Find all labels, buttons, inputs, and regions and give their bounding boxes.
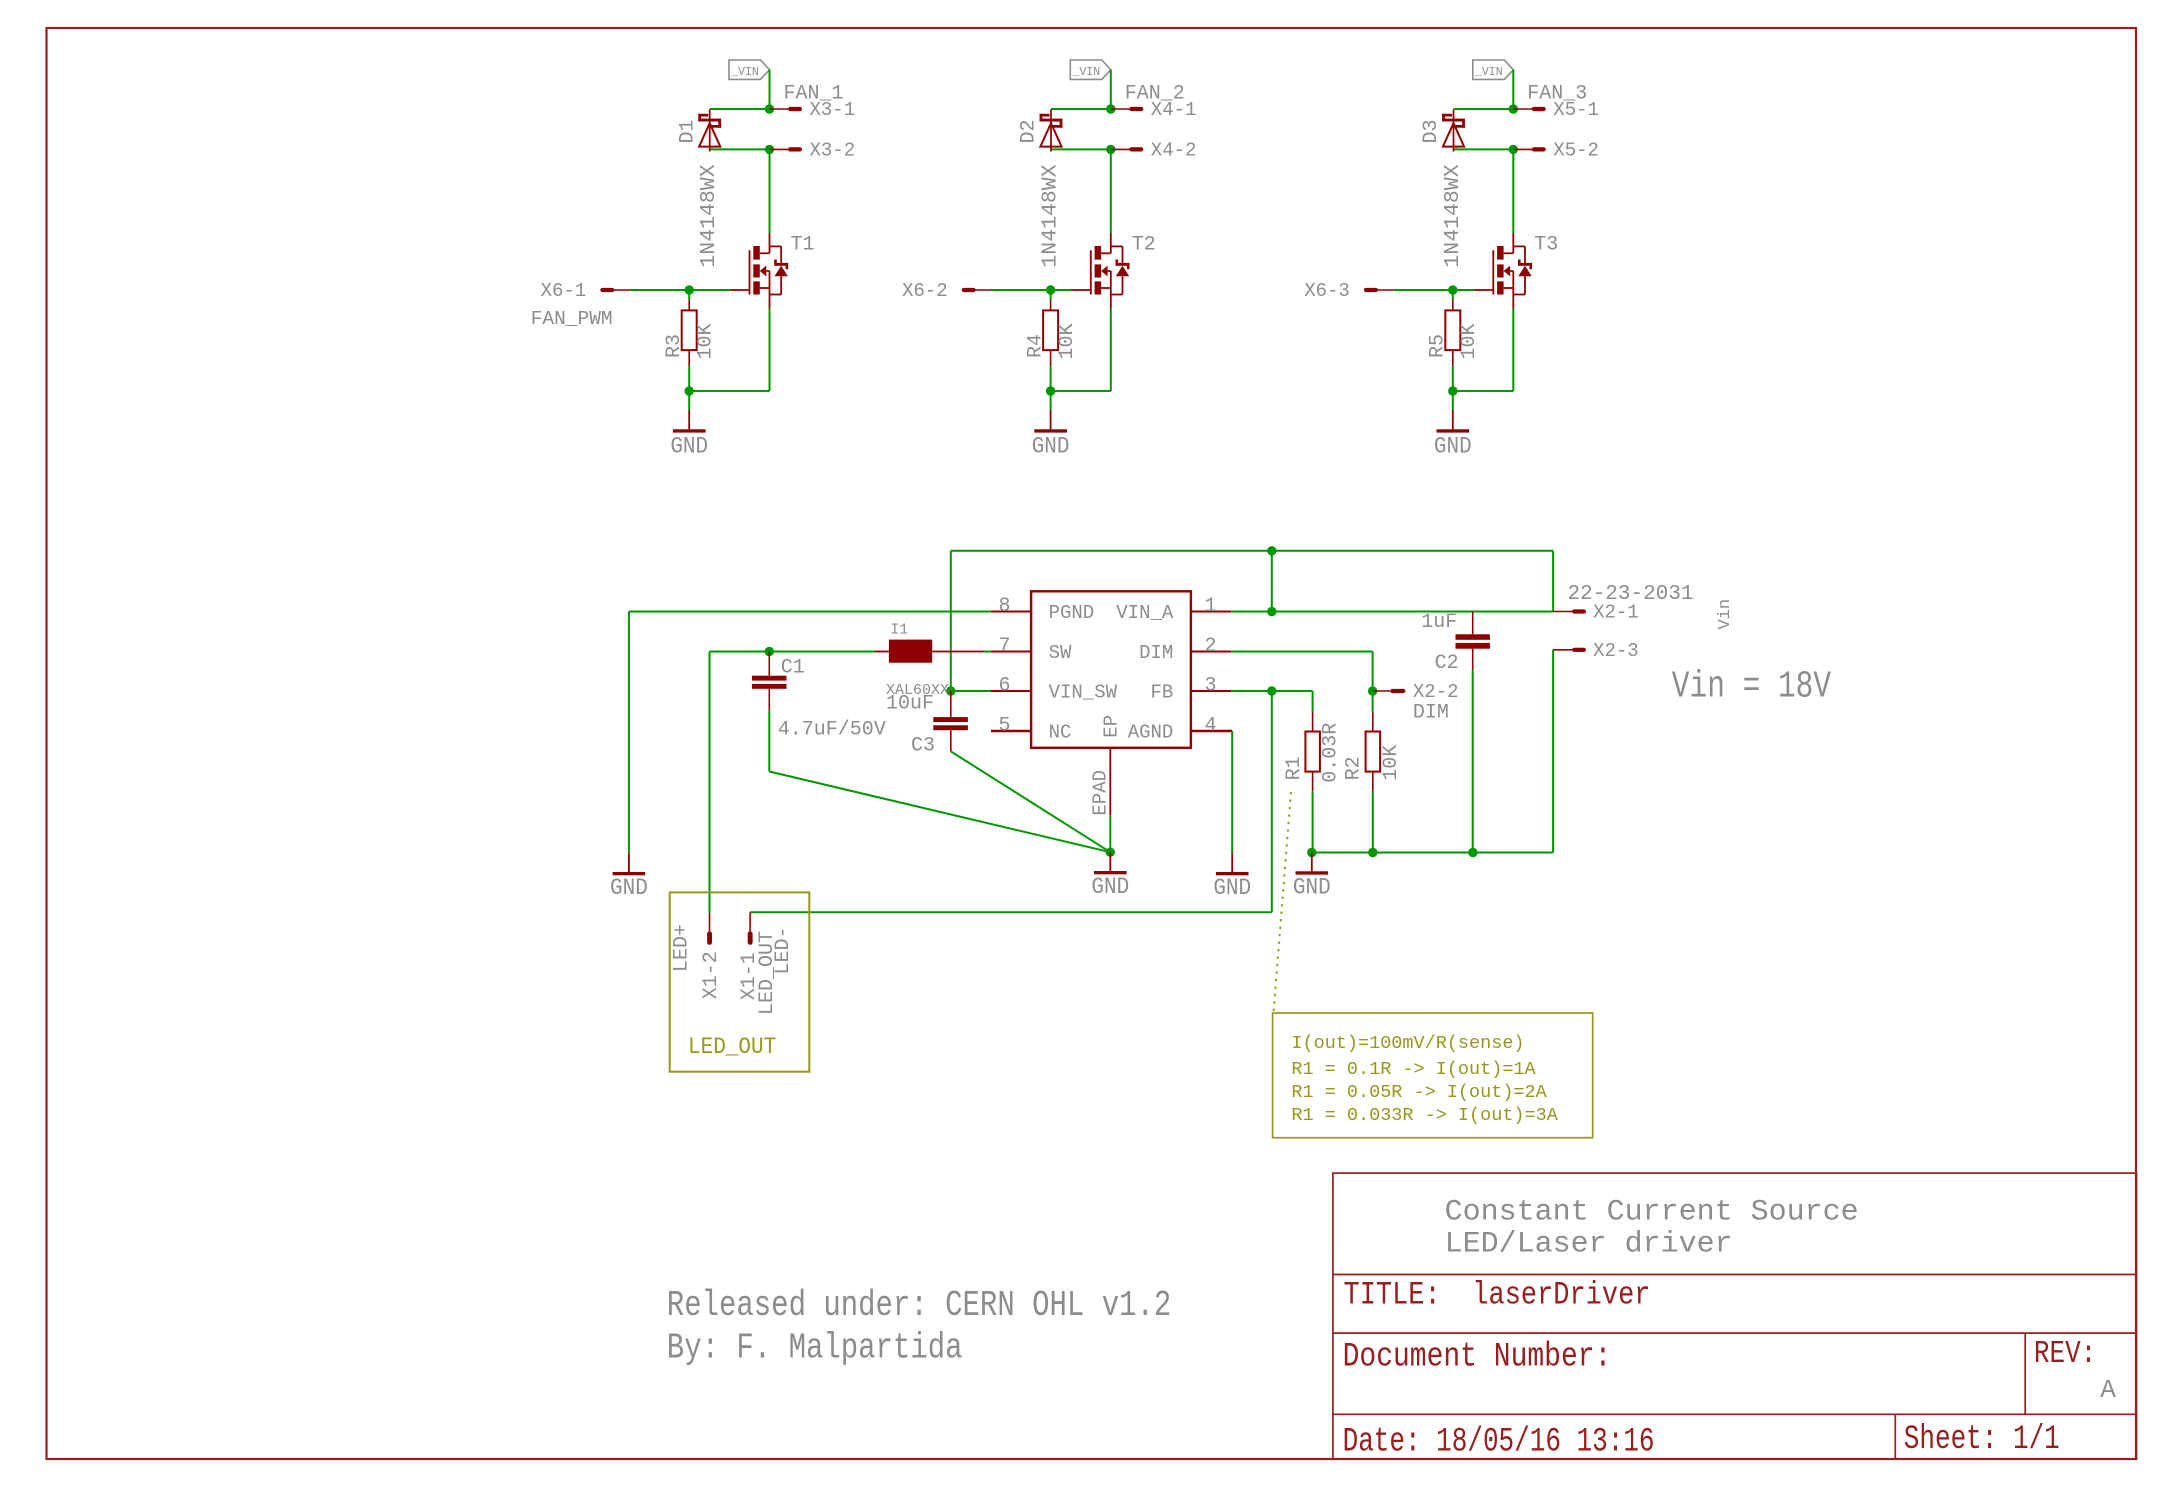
wire R1 to bottom rail xyxy=(1312,791,1314,852)
wire R2 to bottom rail xyxy=(1372,791,1374,852)
svg-text:LED-: LED- xyxy=(772,926,795,974)
n-mosfet T3 xyxy=(1474,233,1532,309)
ground symbol (FAN_1) xyxy=(688,411,690,430)
junction gate/R4 xyxy=(1046,285,1055,294)
junction VIN_SW / C3 xyxy=(946,686,955,695)
svg-text:GND: GND xyxy=(610,875,648,901)
resistor R5 xyxy=(1452,290,1454,300)
svg-text:AGND: AGND xyxy=(1128,722,1174,744)
resistor R3 xyxy=(688,290,690,300)
pin 2 DIM stub xyxy=(1191,651,1231,653)
svg-text:laserDriver: laserDriver xyxy=(1472,1276,1650,1313)
svg-text:X5-2: X5-2 xyxy=(1553,140,1599,162)
svg-text:X2-2: X2-2 xyxy=(1413,681,1459,703)
svg-text:2: 2 xyxy=(1205,635,1217,658)
svg-text:D1: D1 xyxy=(676,119,699,143)
wire VIN_A row xyxy=(1231,611,1553,613)
svg-text:GND: GND xyxy=(670,434,708,460)
svg-text:Released under: CERN OHL v1.2: Released under: CERN OHL v1.2 xyxy=(667,1285,1171,1326)
pin X3-1 xyxy=(770,108,789,110)
wire C1 bottom xyxy=(768,710,770,771)
capacitor C1 xyxy=(768,652,770,676)
svg-text:Vin: Vin xyxy=(1716,599,1735,630)
wire X6-1 to T1 gate xyxy=(689,289,730,291)
svg-text:REV:: REV: xyxy=(2034,1336,2096,1372)
svg-text:R5: R5 xyxy=(1427,334,1450,358)
ground symbol (AGND) xyxy=(1231,853,1233,872)
ground symbol (FAN_2) xyxy=(1050,411,1052,430)
wire FB row to X1-1 xyxy=(750,911,1272,913)
svg-text:D2: D2 xyxy=(1018,119,1041,143)
wire to ground (FAN_1) xyxy=(688,391,690,411)
svg-text:PGND: PGND xyxy=(1049,602,1095,624)
svg-text:R2: R2 xyxy=(1343,756,1366,780)
wire C3 to EPAD node (diagonal) xyxy=(951,751,1111,852)
junction R4 bottom xyxy=(1046,386,1055,395)
svg-text:10K: 10K xyxy=(1056,323,1079,359)
wire C1 node to X1-2 xyxy=(709,652,711,913)
wire source to resistor bottom xyxy=(1051,390,1111,392)
resistor R2 xyxy=(1372,711,1374,731)
pin 7 SW stub xyxy=(991,651,1031,653)
svg-text:X4-1: X4-1 xyxy=(1151,99,1197,121)
wire bottom ground rail xyxy=(1312,852,1553,854)
svg-text:FAN_PWM: FAN_PWM xyxy=(531,308,613,330)
pin 1 VIN_A stub xyxy=(1191,611,1231,613)
svg-text:10K: 10K xyxy=(1458,323,1481,359)
title block outline xyxy=(1333,1173,2137,1459)
wire rail down to VIN_SW xyxy=(950,551,952,691)
wire node to D3 cathode xyxy=(1454,108,1514,110)
junction C2 / rail xyxy=(1468,848,1477,857)
wire node to D2 cathode xyxy=(1051,108,1111,110)
svg-text:DIM: DIM xyxy=(1139,642,1173,664)
svg-text:8: 8 xyxy=(998,595,1010,618)
wire rail down to VIN_A row xyxy=(1271,551,1273,612)
wire D3 anode to X5-2 node xyxy=(1454,148,1514,150)
svg-text:GND: GND xyxy=(1091,874,1129,900)
junction R3 bottom xyxy=(685,386,694,395)
pin X5-2 xyxy=(1513,148,1532,150)
wire T2 source down xyxy=(1110,309,1112,392)
ground symbol (FAN_3) xyxy=(1452,411,1454,430)
node FAN_1 / junction X3-1 xyxy=(765,104,774,113)
svg-text:R4: R4 xyxy=(1024,334,1047,358)
svg-text:T2: T2 xyxy=(1132,233,1156,256)
svg-text:LED_OUT: LED_OUT xyxy=(688,1034,776,1060)
svg-text:7: 7 xyxy=(998,635,1010,658)
supply flag _VIN (FAN_1) xyxy=(729,60,770,79)
wire node to D1 cathode xyxy=(710,108,770,110)
pin X3-2 xyxy=(770,148,789,150)
schottky diode D3 xyxy=(1442,110,1465,152)
wire pin 8 PGND to left xyxy=(629,611,991,613)
ground symbol (PGND) xyxy=(628,853,630,872)
svg-text:X2-1: X2-1 xyxy=(1593,601,1639,623)
junction VIN_A xyxy=(1267,607,1276,616)
wire C1 to EPAD node (diagonal) xyxy=(769,772,1110,853)
pin X4-2 xyxy=(1111,148,1130,150)
wire FB to R1 xyxy=(1312,691,1314,711)
wire AGND down xyxy=(1231,731,1233,853)
svg-text:6: 6 xyxy=(998,675,1010,698)
wire D1 anode to X3-2 node xyxy=(710,148,770,150)
pin X5-1 xyxy=(1513,108,1532,110)
pin X6-2 xyxy=(973,289,992,291)
ground symbol (rail) xyxy=(1311,853,1313,872)
n-mosfet T2 xyxy=(1071,233,1129,309)
junction DIM / X2-2 xyxy=(1368,686,1377,695)
wire _VIN to FAN_1 node xyxy=(769,70,771,109)
svg-text:R1 = 0.1R -> I(out)=1A: R1 = 0.1R -> I(out)=1A xyxy=(1291,1059,1536,1080)
svg-text:1N4148WX: 1N4148WX xyxy=(1039,164,1063,267)
svg-text:1N4148WX: 1N4148WX xyxy=(1441,164,1465,267)
svg-text:10K: 10K xyxy=(1380,745,1403,781)
capacitor C3 xyxy=(950,691,952,717)
svg-text:Sheet: 1/1: Sheet: 1/1 xyxy=(1904,1421,2060,1459)
svg-text:A: A xyxy=(2100,1375,2116,1405)
svg-text:10K: 10K xyxy=(695,323,718,359)
wire source to resistor bottom xyxy=(1453,390,1514,392)
supply flag _VIN (FAN_3) xyxy=(1473,60,1514,79)
wire X3-2 node to T1 drain xyxy=(769,149,771,233)
junction gate/R3 xyxy=(685,285,694,294)
svg-text:EPAD: EPAD xyxy=(1089,770,1111,816)
svg-text:X4-2: X4-2 xyxy=(1151,140,1197,162)
junction C1 top xyxy=(765,647,774,656)
junction top rail xyxy=(1267,546,1276,555)
junction FB xyxy=(1267,686,1276,695)
n-mosfet T1 xyxy=(730,233,788,309)
svg-text:SW: SW xyxy=(1049,642,1072,664)
svg-text:1: 1 xyxy=(1205,595,1217,618)
svg-text:T3: T3 xyxy=(1534,233,1558,256)
svg-text:X1-2: X1-2 xyxy=(700,951,723,999)
wire X5-2 node to T3 drain xyxy=(1512,149,1514,233)
svg-text:VIN_A: VIN_A xyxy=(1116,602,1174,624)
svg-text:1uF: 1uF xyxy=(1421,611,1457,634)
svg-text:C2: C2 xyxy=(1435,652,1459,675)
junction X3-2 xyxy=(765,145,774,154)
junction gate/R5 xyxy=(1448,285,1457,294)
inductor I1 xyxy=(710,651,876,653)
supply flag _VIN (FAN_2) xyxy=(1070,60,1111,79)
pin 8 PGND stub xyxy=(991,611,1031,613)
pin EPAD stub xyxy=(1109,748,1111,816)
svg-text:T1: T1 xyxy=(791,233,815,256)
svg-text:TITLE:: TITLE: xyxy=(1344,1276,1441,1313)
svg-text:NC: NC xyxy=(1049,722,1072,744)
pin X4-1 xyxy=(1111,108,1130,110)
wire _VIN to FAN_2 node xyxy=(1110,70,1112,109)
wire DIM from pin 2 xyxy=(1231,651,1372,653)
ground symbol (EPAD) xyxy=(1109,852,1111,871)
pin X1-1 xyxy=(749,912,751,931)
schottky diode D1 xyxy=(698,110,721,152)
junction X5-2 xyxy=(1509,145,1518,154)
wire X6-3 to T3 gate xyxy=(1453,289,1474,291)
node FAN_3 / junction X5-1 xyxy=(1509,104,1518,113)
resistor R4 xyxy=(1050,290,1052,300)
wire D2 anode to X4-2 node xyxy=(1051,148,1111,150)
svg-text:3: 3 xyxy=(1205,675,1217,698)
svg-text:D3: D3 xyxy=(1420,119,1443,143)
pin 3 FB stub xyxy=(1191,690,1231,692)
wire T3 source down xyxy=(1512,309,1514,392)
svg-text:1N4148WX: 1N4148WX xyxy=(697,164,721,267)
svg-text:4.7uF/50V: 4.7uF/50V xyxy=(778,719,886,742)
svg-text:X2-3: X2-3 xyxy=(1593,640,1639,662)
svg-text:R1: R1 xyxy=(1283,756,1306,780)
svg-text:R3: R3 xyxy=(663,334,686,358)
wire PGND down to ground xyxy=(628,612,630,854)
svg-text:By: F. Malpartida: By: F. Malpartida xyxy=(667,1328,963,1369)
svg-text:VIN_SW: VIN_SW xyxy=(1049,682,1118,704)
svg-text:X6-1: X6-1 xyxy=(541,280,587,302)
svg-text:4: 4 xyxy=(1205,715,1217,738)
note leader line xyxy=(1274,792,1292,1013)
svg-text:_VIN: _VIN xyxy=(730,66,759,79)
wire T1 source down xyxy=(769,309,771,392)
svg-text:GND: GND xyxy=(1032,434,1070,460)
wire X2-3 down to rail xyxy=(1552,650,1554,853)
svg-text:Vin = 18V: Vin = 18V xyxy=(1672,666,1832,709)
svg-text:_VIN: _VIN xyxy=(1474,66,1503,79)
wire X6-2 to T2 gate xyxy=(1051,289,1072,291)
pin X2-2 xyxy=(1373,690,1391,692)
svg-text:10uF: 10uF xyxy=(886,693,934,716)
wire I1 lead to SW pin xyxy=(932,651,984,653)
pin 5 NC stub xyxy=(991,730,1031,733)
svg-text:0.03R: 0.03R xyxy=(1320,723,1343,783)
junction R1 / ground xyxy=(1307,848,1316,857)
ic converter U1 body xyxy=(1031,591,1191,748)
svg-text:Date: 18/05/16 13:16: Date: 18/05/16 13:16 xyxy=(1343,1423,1655,1461)
svg-text:DIM: DIM xyxy=(1413,702,1449,725)
svg-text:X3-1: X3-1 xyxy=(810,99,856,121)
pin X6-3 xyxy=(1375,289,1394,291)
svg-text:EP: EP xyxy=(1100,715,1122,738)
svg-text:R1 = 0.033R -> I(out)=3A: R1 = 0.033R -> I(out)=3A xyxy=(1291,1105,1558,1126)
wire X2-2 node to R2 xyxy=(1372,691,1374,711)
svg-text:C3: C3 xyxy=(911,735,935,758)
svg-text:5: 5 xyxy=(998,715,1010,738)
note box xyxy=(1273,1013,1593,1138)
wire VIN_SW junction to pin 6 xyxy=(951,690,991,692)
connector box LED_OUT xyxy=(670,892,810,1071)
junction R2 / rail xyxy=(1368,848,1377,857)
svg-text:I1: I1 xyxy=(890,622,908,639)
wire FB from pin 3 xyxy=(1231,690,1312,692)
svg-text:X5-1: X5-1 xyxy=(1553,99,1599,121)
svg-text:GND: GND xyxy=(1293,875,1331,901)
wire C2 to rail xyxy=(1472,670,1474,853)
capacitor C2 xyxy=(1472,612,1474,635)
wire to ground (FAN_3) xyxy=(1452,391,1454,411)
pin X2-1 xyxy=(1553,611,1572,613)
wire source to resistor bottom xyxy=(689,390,769,392)
svg-text:I(out)=100mV/R(sense): I(out)=100mV/R(sense) xyxy=(1291,1033,1524,1054)
pin 6 VIN_SW stub xyxy=(991,690,1031,692)
svg-text:Document Number:: Document Number: xyxy=(1343,1338,1612,1376)
wire rail down to X2-1 xyxy=(1552,551,1554,612)
node FAN_2 / junction X4-1 xyxy=(1106,104,1115,113)
wire X4-2 node to T2 drain xyxy=(1110,149,1112,233)
wire FB down to LED wire xyxy=(1271,691,1273,912)
pin X6-1 xyxy=(612,289,631,291)
svg-text:X3-2: X3-2 xyxy=(810,140,856,162)
svg-text:FB: FB xyxy=(1150,682,1173,704)
wire _VIN to FAN_3 node xyxy=(1512,70,1514,109)
svg-text:LED+: LED+ xyxy=(671,924,694,972)
resistor R1 (sense) xyxy=(1312,711,1314,731)
wire to ground (FAN_2) xyxy=(1050,391,1052,411)
svg-text:X6-3: X6-3 xyxy=(1304,280,1350,302)
wire EPAD to ground node xyxy=(1109,815,1111,852)
pin X2-3 xyxy=(1553,649,1572,651)
svg-text:GND: GND xyxy=(1434,434,1472,460)
junction R5 bottom xyxy=(1448,386,1457,395)
svg-text:R1 = 0.05R -> I(out)=2A: R1 = 0.05R -> I(out)=2A xyxy=(1291,1082,1547,1103)
svg-text:C1: C1 xyxy=(781,657,805,680)
svg-text:X6-2: X6-2 xyxy=(902,280,948,302)
schottky diode D2 xyxy=(1040,110,1063,152)
wire top supply rail xyxy=(951,550,1553,552)
junction EPAD ground node xyxy=(1106,848,1115,857)
pin X1-2 xyxy=(709,913,711,932)
svg-text:Constant Current Source: Constant Current Source xyxy=(1445,1195,1859,1229)
pin 4 AGND stub xyxy=(1191,730,1232,733)
wire DIM down xyxy=(1372,652,1374,692)
svg-text:_VIN: _VIN xyxy=(1071,66,1100,79)
svg-text:GND: GND xyxy=(1213,875,1251,901)
junction X4-2 xyxy=(1106,145,1115,154)
svg-text:LED/Laser driver: LED/Laser driver xyxy=(1445,1228,1733,1262)
